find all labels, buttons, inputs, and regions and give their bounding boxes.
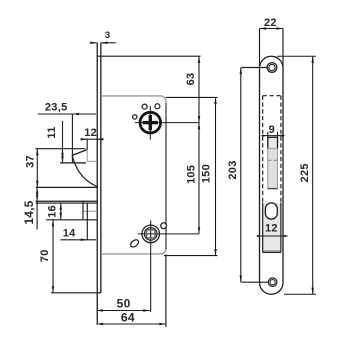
lock body outline (grey) (101, 96, 166, 254)
dimension 70 (52, 220, 54, 293)
deadbolt face visible through cutout (grey fill) (263, 203, 280, 251)
svg-text:225: 225 (299, 163, 311, 182)
dimension 150 (166, 96, 218, 98)
spindle hub ring (140, 112, 161, 133)
svg-text:11: 11 (46, 126, 58, 138)
dimension 63 (198, 56, 200, 122)
svg-text:105: 105 (185, 165, 197, 184)
dimension 14 (60, 239, 96, 241)
dimension 12 (right view) (257, 235, 288, 237)
deadbolt line C (36, 202, 97, 204)
latch bolt side view: top bevel diagonal (72, 150, 87, 156)
svg-text:64: 64 (121, 310, 135, 324)
svg-text:37: 37 (24, 155, 36, 168)
thumbturn obround hole (265, 203, 277, 219)
dimension 50 (96, 310, 149, 312)
lower hub rings (142, 225, 160, 243)
cutout solid edges lower part (262, 203, 264, 253)
svg-text:9: 9 (269, 124, 275, 136)
small oval hole (129, 238, 140, 248)
dimension 37 (36, 149, 38, 188)
svg-text:50: 50 (117, 296, 131, 310)
deadbolt line B (36, 200, 97, 202)
lower hub (cylinder hole) centerlines (150, 220, 152, 312)
faceplate edge-on (left view) (96, 43, 98, 324)
deadbolt hidden line (grey) (83, 210, 97, 212)
svg-text:63: 63 (185, 73, 197, 86)
latch hidden edge horizontal (grey) (87, 160, 97, 162)
svg-text:3: 3 (105, 30, 111, 41)
dimension 3 (faceplate thickness) (91, 42, 97, 44)
dimension 14,5 (36, 187, 38, 229)
faceplate front view outline (260, 56, 284, 294)
dimension 225 (277, 55, 316, 57)
svg-text:70: 70 (39, 249, 51, 262)
svg-text:22: 22 (264, 17, 277, 29)
extension line top (to 63 dim) (97, 55, 201, 57)
deadbolt top extension line (36, 186, 97, 188)
spindle hub centerlines (149, 106, 151, 139)
deadbolt bottom edge grey (263, 250, 280, 252)
latch bottom edge (60, 162, 86, 164)
lock body right edge darker (165, 103, 167, 249)
small hole left of spindle (133, 115, 137, 119)
bottom screw hole (268, 278, 277, 287)
dimension 203 (240, 68, 242, 283)
extension vertical from body corner to 64 (165, 255, 167, 328)
latch top extension line (35, 148, 85, 150)
dimension 22 (260, 28, 284, 30)
extension line D (46, 219, 97, 221)
svg-text:14,5: 14,5 (22, 200, 36, 224)
svg-text:203: 203 (227, 160, 239, 179)
top screw hole (267, 63, 277, 73)
dimension 9 (261, 135, 284, 137)
extension vertical for 14 (86, 203, 88, 240)
bottom extension line of faceplate (51, 292, 97, 294)
cutout bottom edge (263, 251, 281, 253)
svg-text:23,5: 23,5 (45, 101, 68, 113)
dimension 11 (62, 121, 64, 163)
lower hub square (147, 230, 156, 238)
dimension 16 (60, 203, 62, 219)
dimension 64 (96, 323, 165, 325)
latch hidden edge vertical (grey) (86, 150, 88, 162)
svg-text:150: 150 (200, 164, 212, 183)
small hole top-right of spindle (155, 104, 160, 109)
latch shaft dashed hidden line (268, 159, 277, 161)
svg-text:12: 12 (265, 223, 278, 235)
svg-text:16: 16 (46, 205, 58, 218)
cutout dashed edges (262, 96, 264, 203)
dimension 23,5 (38, 113, 96, 115)
dimension 12 (left view latch protrusion) (83, 138, 87, 140)
latch head front view (268, 137, 278, 148)
faceplate edge extension lines up to dim 22 (259, 29, 261, 69)
deadbolt rear vertical (82, 201, 84, 220)
dimension 105 (198, 123, 200, 234)
spindle square hole cross (143, 121, 158, 124)
latch shaft (grey) (268, 149, 278, 189)
small hole near body edge (161, 223, 167, 229)
latch swing arc (72, 155, 97, 186)
svg-text:14: 14 (63, 228, 76, 240)
svg-text:12: 12 (84, 127, 97, 139)
latch shaft bottom edge (268, 188, 278, 190)
small hole top-left of spindle (142, 104, 147, 109)
